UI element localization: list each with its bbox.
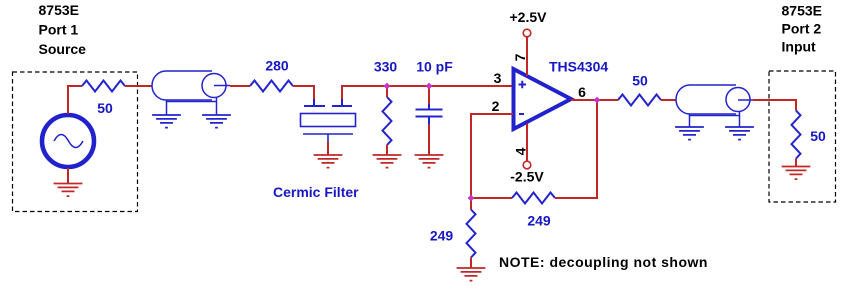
wire output to R6 xyxy=(571,99,618,101)
wire R5 to output xyxy=(555,100,597,198)
svg-text:10 pF: 10 pF xyxy=(416,59,453,75)
source VG1 xyxy=(42,115,94,167)
terminal -2.5V xyxy=(510,161,544,184)
svg-text:6: 6 xyxy=(578,84,586,100)
dashed box port 2 xyxy=(769,71,836,202)
svg-text:Source: Source xyxy=(39,41,87,57)
svg-text:2: 2 xyxy=(492,98,500,114)
svg-text:Port 1: Port 1 xyxy=(39,22,79,38)
wire R1 to TL1 xyxy=(125,85,152,87)
svg-text:Input: Input xyxy=(782,39,817,55)
wire TL1 to R2 xyxy=(230,85,250,87)
pin 4 xyxy=(513,147,529,155)
svg-text:50: 50 xyxy=(632,73,648,89)
resistor R3 330 xyxy=(383,97,392,145)
ground TL1 left xyxy=(152,115,181,128)
svg-text:NOTE: decoupling not shown: NOTE: decoupling not shown xyxy=(499,254,708,270)
ground TL2 left xyxy=(675,127,704,140)
wire filter to opamp node xyxy=(342,86,513,99)
svg-text:Port 2: Port 2 xyxy=(782,21,822,37)
ceramic filter F1 xyxy=(301,99,356,142)
ground R4 xyxy=(457,268,486,281)
svg-text:249: 249 xyxy=(527,213,551,229)
wire R4 stem top xyxy=(470,198,472,210)
wire source to R1 xyxy=(68,86,82,114)
svg-text:50: 50 xyxy=(810,128,826,144)
ground C1 xyxy=(415,155,444,168)
node junction feedback xyxy=(468,195,475,202)
svg-text:330: 330 xyxy=(374,59,398,75)
label 249 vertical xyxy=(430,228,454,244)
svg-text:50: 50 xyxy=(97,100,113,116)
node junction R3 top xyxy=(384,83,391,90)
wire C1 stem bottom xyxy=(428,125,430,156)
label 50 load xyxy=(810,128,826,144)
wire V+ to pin7 xyxy=(526,37,528,77)
ground source xyxy=(54,168,83,196)
wire C1 stem top xyxy=(428,86,430,105)
resistor R2 280 xyxy=(250,81,293,92)
wire R3 stem top xyxy=(386,86,388,97)
resistor R7 50 load xyxy=(792,111,801,159)
wire R4 stem bottom xyxy=(470,258,472,269)
wire R6 to TL2 xyxy=(661,99,676,101)
pin 3 xyxy=(494,70,502,86)
pin 6 xyxy=(578,84,586,100)
svg-text:3: 3 xyxy=(494,70,502,86)
label 8753E Port 2 Input xyxy=(782,3,822,55)
label 330 xyxy=(374,59,398,75)
label 249 feedback xyxy=(527,213,551,229)
svg-text:249: 249 xyxy=(430,228,454,244)
wire feedback to R5 xyxy=(471,197,512,199)
svg-text:7: 7 xyxy=(512,53,528,61)
label 280 xyxy=(265,58,289,74)
wire filter ground stem xyxy=(327,142,329,155)
wire R3 stem bottom xyxy=(386,145,388,155)
op-amp U1 THS4304 xyxy=(514,69,572,129)
ground TL2 right xyxy=(725,127,754,140)
wire R7 stem bottom xyxy=(795,159,797,167)
svg-text:8753E: 8753E xyxy=(782,3,822,19)
wire pin4 to V- xyxy=(526,124,528,162)
pin 7 xyxy=(512,53,528,61)
resistor R4 249 vertical xyxy=(467,210,476,258)
capacitor C1 10 pF xyxy=(416,104,443,125)
transmission line TL2 xyxy=(676,85,753,127)
svg-text:8753E: 8753E xyxy=(39,2,79,18)
resistor R6 50 xyxy=(618,95,661,106)
svg-text:Cermic Filter: Cermic Filter xyxy=(273,184,359,200)
svg-text:280: 280 xyxy=(265,58,289,74)
svg-text:-2.5V: -2.5V xyxy=(510,169,544,185)
label 50 output xyxy=(632,73,648,89)
wire TL2 to R7 xyxy=(753,100,796,111)
label 10 pF xyxy=(416,59,453,75)
node junction output xyxy=(594,97,601,104)
ground R7 xyxy=(782,167,811,180)
resistor R5 249 feedback xyxy=(512,193,555,204)
ground filter xyxy=(314,155,343,168)
label THS4304 xyxy=(549,59,608,75)
terminal +2.5V xyxy=(510,9,548,37)
wire R2 to filter xyxy=(293,86,314,99)
note text xyxy=(499,254,708,270)
pin 2 xyxy=(492,98,500,114)
label 8753E Port 1 Source xyxy=(39,2,87,57)
wire pin2 feedback left xyxy=(471,114,513,198)
svg-text:THS4304: THS4304 xyxy=(549,59,608,75)
ground TL1 right xyxy=(202,115,231,128)
transmission line TL1 xyxy=(152,71,230,115)
label Cermic Filter xyxy=(273,184,359,200)
svg-text:+2.5V: +2.5V xyxy=(510,9,548,25)
dashed box port 1 xyxy=(13,72,138,212)
resistor R1 50 xyxy=(82,81,125,92)
ground R3 xyxy=(373,155,402,168)
node junction C1 top xyxy=(426,83,433,90)
label 50 xyxy=(97,100,113,116)
